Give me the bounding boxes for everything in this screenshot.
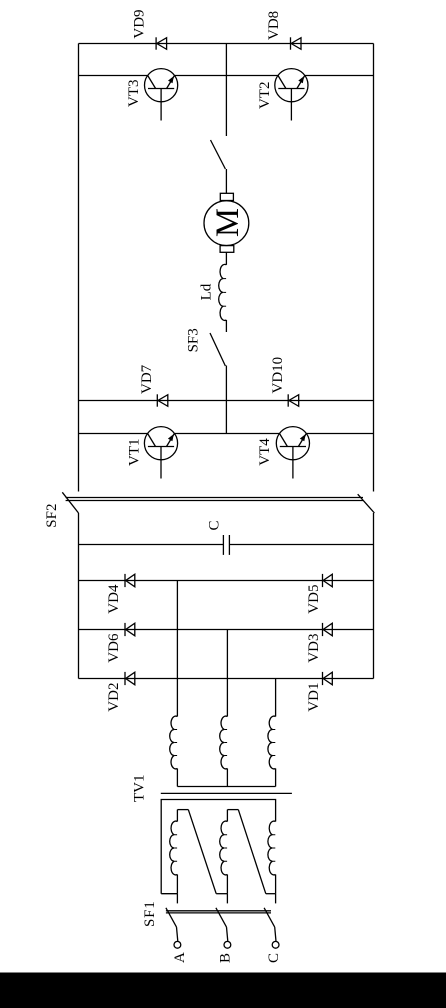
wire load left bbox=[225, 366, 227, 434]
switch SF3 blade bbox=[210, 333, 225, 366]
label SF1 bbox=[142, 900, 158, 927]
wire capacitor top bbox=[79, 544, 224, 546]
label VD2 bbox=[106, 683, 122, 712]
wire diode leg left bbox=[79, 400, 374, 402]
diode VD7 bbox=[157, 394, 168, 406]
svg-text:VD10: VD10 bbox=[270, 357, 286, 394]
svg-text:SF1: SF1 bbox=[142, 900, 158, 927]
label Ld bbox=[199, 283, 215, 300]
transformer primary bus bbox=[161, 800, 275, 894]
diode VD2 bbox=[125, 672, 135, 685]
primary winding W1 lead right bbox=[176, 810, 178, 822]
wire negative bus left bbox=[373, 513, 375, 679]
svg-text:C: C bbox=[207, 520, 223, 530]
wire delta link W2-W3 diagonal bbox=[238, 810, 265, 894]
svg-text:VD2: VD2 bbox=[106, 683, 122, 712]
svg-text:Ld: Ld bbox=[199, 283, 215, 300]
wire VT1 collector bbox=[79, 433, 148, 435]
wire terminal B to SF1 hinge bbox=[227, 927, 228, 941]
secondary star bus bbox=[177, 786, 275, 788]
transistor VT1 bbox=[144, 427, 177, 479]
primary winding W1 lead left bbox=[176, 875, 178, 894]
inductor Ld bbox=[219, 264, 227, 320]
wire VT4 emitter bbox=[306, 433, 373, 435]
wire terminal A to SF1 hinge bbox=[177, 927, 178, 941]
wire Ld to motor bbox=[225, 252, 227, 265]
label SF2 bbox=[44, 504, 60, 528]
black margin bar bbox=[0, 973, 446, 1008]
diode VD9 bbox=[156, 37, 167, 49]
wire phase C bbox=[275, 679, 277, 717]
wire right leg middle bbox=[175, 75, 278, 77]
svg-text:VD3: VD3 bbox=[306, 634, 322, 663]
wire right edge vertical bbox=[79, 43, 374, 45]
primary winding W1 jog bbox=[177, 809, 188, 811]
primary winding W3 coil bbox=[268, 821, 276, 875]
svg-text:A: A bbox=[172, 952, 188, 963]
wire capacitor bottom bbox=[229, 544, 373, 546]
wire positive bus right bbox=[78, 44, 80, 492]
svg-text:VD1: VD1 bbox=[306, 683, 322, 712]
primary winding W3 lead left bbox=[275, 875, 277, 894]
secondary winding S3 coil bbox=[268, 716, 276, 769]
transformer core line bbox=[161, 792, 292, 794]
wire load right bbox=[225, 44, 227, 137]
secondary winding S2 coil bbox=[220, 716, 228, 769]
diode VD4 bbox=[125, 574, 135, 587]
svg-text:M: M bbox=[210, 208, 246, 237]
svg-text:VD9: VD9 bbox=[132, 9, 148, 38]
label SF3 bbox=[186, 328, 202, 352]
svg-text:TV1: TV1 bbox=[132, 775, 148, 803]
wire motor to switch bbox=[225, 169, 227, 193]
diode VD8 bbox=[291, 37, 302, 49]
label VT1 bbox=[127, 439, 143, 467]
label VT2 bbox=[257, 82, 273, 110]
switch SF2 top blade bbox=[62, 492, 78, 513]
wire SF1 A to winding bbox=[176, 894, 178, 904]
label C bbox=[266, 953, 282, 963]
wire terminal C to SF1 hinge bbox=[275, 927, 276, 941]
label VD7 bbox=[139, 364, 155, 394]
svg-text:SF3: SF3 bbox=[186, 328, 202, 352]
secondary winding S3 lead bbox=[275, 769, 277, 787]
secondary winding S2 lead bbox=[226, 769, 228, 787]
wire delta link W1-W2 drop bbox=[216, 893, 227, 895]
wire VT2 emitter bbox=[305, 75, 374, 77]
transistor VT2 bbox=[275, 69, 308, 121]
switch SF2 bottom blade bbox=[358, 494, 375, 513]
primary winding W2 coil bbox=[220, 821, 228, 875]
transistor VT4 bbox=[276, 427, 309, 479]
wire rectifier leg 1 bbox=[79, 678, 374, 680]
motor M brush left bbox=[220, 246, 234, 253]
switch SF1 linkage bar bbox=[166, 911, 271, 913]
diode VD6 bbox=[125, 623, 135, 636]
diode VD3 bbox=[323, 623, 333, 636]
label B bbox=[218, 953, 234, 963]
wire rectifier leg 2 bbox=[79, 629, 374, 631]
label VD5 bbox=[306, 585, 322, 614]
svg-text:SF2: SF2 bbox=[44, 504, 60, 528]
svg-text:VT3: VT3 bbox=[126, 80, 142, 108]
switch SF2 linkage bar bbox=[66, 498, 363, 501]
switch SF1 blade C bbox=[264, 908, 275, 927]
wire phase B bbox=[226, 630, 228, 717]
secondary winding S1 lead bbox=[176, 769, 178, 787]
transistor VT3 bbox=[145, 69, 178, 121]
terminal A bbox=[174, 941, 181, 948]
wire positive bus left bbox=[78, 513, 80, 679]
svg-text:VD5: VD5 bbox=[306, 585, 322, 614]
label VD3 bbox=[306, 634, 322, 663]
diode VD1 bbox=[323, 672, 333, 685]
svg-text:VT2: VT2 bbox=[257, 82, 273, 110]
svg-text:VD8: VD8 bbox=[266, 11, 282, 40]
label VT3 bbox=[126, 80, 142, 108]
motor M brush right bbox=[220, 193, 233, 200]
label TV1 bbox=[132, 775, 148, 803]
label VD10 bbox=[270, 357, 286, 394]
wire SF1 C to winding bbox=[275, 894, 277, 904]
wire delta link W1-W2 diagonal bbox=[188, 810, 216, 894]
wire delta return to W1 bbox=[161, 893, 177, 895]
svg-text:VT4: VT4 bbox=[257, 438, 273, 466]
svg-text:VT1: VT1 bbox=[127, 439, 143, 467]
label VD9 bbox=[132, 9, 148, 38]
switch S blade bbox=[211, 140, 226, 169]
label VT4 bbox=[257, 438, 273, 466]
wire VT3 collector bbox=[79, 75, 148, 77]
switch SF1 blade A bbox=[166, 908, 177, 927]
terminal C bbox=[272, 941, 279, 948]
primary winding W2 lead right bbox=[226, 810, 228, 822]
switch SF1 blade B bbox=[216, 908, 227, 927]
secondary winding S1 coil bbox=[170, 716, 178, 769]
motor M body bbox=[204, 201, 249, 246]
svg-text:VD7: VD7 bbox=[139, 364, 155, 394]
label A bbox=[172, 952, 188, 963]
svg-text:VD4: VD4 bbox=[106, 584, 122, 614]
label VD8 bbox=[266, 11, 282, 40]
svg-text:C: C bbox=[266, 953, 282, 963]
primary winding W2 jog bbox=[227, 809, 238, 811]
diode VD10 bbox=[288, 394, 299, 406]
label VD6 bbox=[106, 633, 122, 663]
primary winding W2 lead left bbox=[226, 875, 228, 894]
wire negative bus right bbox=[373, 44, 375, 492]
wire rectifier leg 3 bbox=[79, 580, 374, 582]
label VD4 bbox=[106, 584, 122, 614]
motor M letter bbox=[210, 208, 246, 237]
svg-text:VD6: VD6 bbox=[106, 633, 122, 663]
label VD1 bbox=[306, 683, 322, 712]
terminal B bbox=[224, 941, 231, 948]
wire SF3 to Ld bbox=[225, 320, 227, 332]
capacitor C plates bbox=[223, 535, 229, 555]
wire delta link W2-W3 drop bbox=[266, 893, 276, 895]
primary winding W1 coil bbox=[170, 821, 178, 875]
wire SF1 B to winding bbox=[226, 894, 228, 904]
wire left leg middle bbox=[175, 433, 280, 435]
wire phase A bbox=[176, 581, 178, 717]
svg-text:B: B bbox=[218, 953, 234, 963]
diode VD5 bbox=[323, 574, 333, 587]
label C bbox=[207, 520, 223, 530]
